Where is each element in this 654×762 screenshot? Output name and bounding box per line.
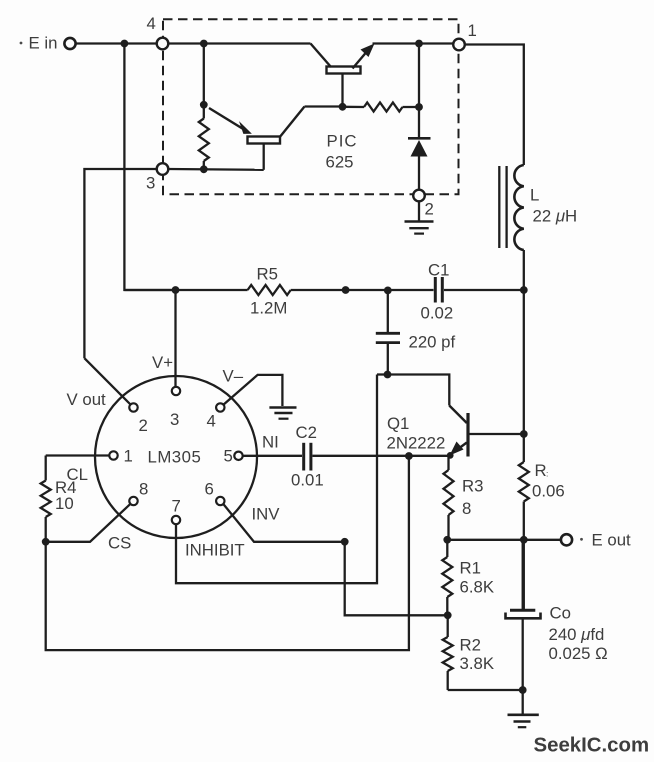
svg-text:SeekIC.com: SeekIC.com xyxy=(534,735,650,757)
pin 2 xyxy=(129,403,137,411)
junction rail/E out xyxy=(520,536,528,544)
junction Q-a base xyxy=(339,103,347,111)
node 4 (module pin) xyxy=(157,38,169,50)
wire Q-a base vertical xyxy=(341,74,343,107)
junction 220pf/inhibit/Q1 xyxy=(384,371,392,379)
junction V+ riser xyxy=(172,286,180,294)
svg-text:V+: V+ xyxy=(152,353,173,372)
svg-text:6: 6 xyxy=(205,480,214,499)
svg-text:LM305: LM305 xyxy=(148,448,202,467)
svg-text:4: 4 xyxy=(207,412,216,431)
junction rail/C1 xyxy=(520,286,528,294)
svg-text:0.06: 0.06 xyxy=(532,482,565,501)
svg-text:2: 2 xyxy=(139,416,148,435)
wire Q1 base to rail xyxy=(470,433,524,435)
capacitor C2 xyxy=(302,443,305,471)
resistor (PIC bias, left vertical) xyxy=(199,119,209,162)
svg-text:C1: C1 xyxy=(428,261,449,280)
resistor R5 xyxy=(248,285,291,295)
junction NI wire / left loop xyxy=(405,452,413,460)
svg-text:2N2222: 2N2222 xyxy=(387,434,446,453)
wire pin7 INHIBIT path xyxy=(176,375,377,584)
junction Q1 emitter/R3 xyxy=(447,452,454,459)
PIC 625 module dashed boundary xyxy=(163,19,459,194)
junction rail/Q1 base xyxy=(520,430,528,438)
svg-text:1: 1 xyxy=(124,447,133,466)
wire inductor to lower rail xyxy=(523,250,525,462)
wire Q-b emitter down xyxy=(263,144,265,170)
svg-text:220 pf: 220 pf xyxy=(409,333,456,352)
svg-text:0.02: 0.02 xyxy=(421,304,454,323)
wire node 2 to ground xyxy=(418,201,420,221)
junction top rail / diode branch xyxy=(415,40,423,48)
svg-text:Q1: Q1 xyxy=(387,414,409,433)
pin 1 xyxy=(109,451,117,459)
svg-text:R2: R2 xyxy=(460,636,481,655)
svg-text:0.025 Ω: 0.025 Ω xyxy=(549,644,608,663)
svg-text:NI: NI xyxy=(262,433,279,452)
label E out xyxy=(580,538,583,541)
wire Q-a collector diagonal from top rail xyxy=(311,44,332,68)
svg-text:3: 3 xyxy=(170,410,179,429)
transistor Q-a (PIC upper) body bar xyxy=(327,67,361,74)
wire pin8 CS diagonal xyxy=(46,504,131,542)
svg-text:E in: E in xyxy=(29,34,58,53)
wire INV feedback xyxy=(345,542,448,616)
svg-text:3.8K: 3.8K xyxy=(460,654,495,673)
svg-text:5: 5 xyxy=(224,447,233,466)
capacitor Co xyxy=(522,540,524,609)
wire 220pf bottom xyxy=(387,344,389,375)
junction INV wire end xyxy=(341,538,349,546)
resistor Ri 0.06 xyxy=(519,462,529,502)
junction top-left inside module xyxy=(200,40,208,48)
pin 6 xyxy=(216,497,224,505)
resistor R3 xyxy=(447,456,449,470)
Q1 emitter with arrow xyxy=(456,443,467,451)
svg-text:R5: R5 xyxy=(257,265,278,284)
wire pin5 NI xyxy=(243,455,302,457)
resistor R2 xyxy=(447,615,449,637)
wire bottom-left loop xyxy=(46,456,409,650)
wire C1 right to rail xyxy=(444,289,524,291)
pin 5 xyxy=(234,452,242,460)
pin 4 xyxy=(216,403,224,411)
wire R2 bottom to Co xyxy=(448,689,523,691)
svg-text:3: 3 xyxy=(146,174,155,193)
wire pin2 V out diagonal xyxy=(84,358,130,404)
svg-text:V out: V out xyxy=(67,390,107,409)
svg-text:R: R xyxy=(535,461,547,480)
resistor R4 xyxy=(45,456,47,481)
inductor core lines xyxy=(498,166,500,248)
svg-text:L: L xyxy=(530,186,539,205)
terminal E out xyxy=(561,534,572,545)
svg-text::: : xyxy=(546,469,548,479)
svg-text:Co: Co xyxy=(550,604,571,623)
svg-text:4: 4 xyxy=(147,14,156,33)
wire pin4 V- to ground xyxy=(224,375,283,406)
svg-text:2: 2 xyxy=(425,200,434,219)
ground (module pin 2) xyxy=(405,220,434,223)
svg-text:PIC: PIC xyxy=(327,132,358,151)
svg-text:INV: INV xyxy=(252,505,281,524)
wire to Q-a base node xyxy=(305,105,343,107)
junction at drive node xyxy=(200,101,208,109)
diode D (PIC internal) xyxy=(408,137,431,140)
wire pin1 CL xyxy=(46,454,110,456)
wire C2 to Q1 emitter xyxy=(313,455,452,457)
wire to Q1 collector xyxy=(388,375,450,406)
svg-text:INHIBIT: INHIBIT xyxy=(185,541,245,560)
node 3 (module pin) xyxy=(157,163,169,175)
node 2 (module pin) xyxy=(413,190,425,202)
svg-text:625: 625 xyxy=(326,153,354,172)
svg-text:6.8K: 6.8K xyxy=(460,578,495,597)
wire: left rail down to R5 wire xyxy=(124,44,171,291)
junction R1/R2 xyxy=(444,611,452,619)
junction R4/CS xyxy=(42,538,50,546)
Q1 base bar xyxy=(466,413,469,457)
svg-text:0.01: 0.01 xyxy=(291,471,324,490)
svg-text:R1: R1 xyxy=(460,559,481,578)
capacitor 220pf xyxy=(376,332,400,335)
svg-text:CS: CS xyxy=(108,534,131,553)
junction Co/R2 xyxy=(519,686,527,694)
svg-text:240 μfd: 240 μfd xyxy=(549,625,605,644)
ground (output) xyxy=(508,713,539,716)
junction 220pf xyxy=(384,287,392,295)
wire node4 into module xyxy=(169,42,311,44)
pin 3 xyxy=(172,387,180,395)
svg-text:1.2M: 1.2M xyxy=(250,299,287,318)
wire E out row xyxy=(447,539,561,541)
wire Q-a emitter arrow to top rail xyxy=(353,49,370,69)
junction R3/R1 xyxy=(443,536,451,544)
svg-text:10: 10 xyxy=(55,494,74,513)
wire to ground xyxy=(522,690,524,714)
transistor Q-b base drive arrow xyxy=(209,108,244,130)
wire top rail right of Q-a to node 1 xyxy=(373,42,454,44)
junction 345 xyxy=(342,286,350,294)
wire resistor to diode rail xyxy=(403,106,420,108)
svg-text:22 μH: 22 μH xyxy=(533,207,578,226)
wire E in to node 4 xyxy=(76,42,157,44)
wire base node to resistor xyxy=(343,106,365,108)
label E in xyxy=(20,42,23,45)
wire R5 to C1 xyxy=(291,289,434,291)
inductor L coil xyxy=(514,165,523,250)
wire diode rail xyxy=(418,44,420,138)
svg-text:E out: E out xyxy=(592,531,632,550)
wire pin6 INV diagonal xyxy=(223,504,344,542)
pin 7 xyxy=(172,516,180,524)
ground (V-) xyxy=(269,406,296,409)
svg-text:V–: V– xyxy=(223,367,244,386)
svg-text:7: 7 xyxy=(172,497,181,516)
wire resistor to bottom xyxy=(203,161,205,169)
Q1 collector xyxy=(449,406,467,424)
junction diode rail xyxy=(415,103,423,111)
transistor Q-b (PIC lower) body bar xyxy=(248,137,281,144)
svg-text:R3: R3 xyxy=(462,477,483,496)
junction: E in rail / R5 rail xyxy=(121,40,129,48)
svg-text:8: 8 xyxy=(139,480,148,499)
svg-text:1: 1 xyxy=(468,21,477,40)
wire node 1 to inductor xyxy=(465,45,524,166)
junction node3 wire xyxy=(200,165,208,173)
svg-text:8: 8 xyxy=(462,499,471,518)
wire inhibit riser top link xyxy=(377,373,388,375)
wire: inner left drop xyxy=(203,44,205,119)
wire Q-b collector diagonal xyxy=(280,107,305,138)
wire R5 left xyxy=(124,289,247,291)
resistor R1 xyxy=(446,540,448,557)
wire node 3 inner xyxy=(169,168,264,171)
pin 8 xyxy=(129,497,137,505)
op-amp/regulator U1 LM305 body xyxy=(95,376,257,538)
capacitor C1 xyxy=(434,277,437,303)
wire 220pf top xyxy=(387,290,389,332)
wire node 3 to V out riser xyxy=(84,169,156,358)
svg-text:C2: C2 xyxy=(296,423,317,442)
terminal E in xyxy=(64,38,75,49)
node 1 (module pin) xyxy=(453,39,465,51)
wire pin3 V+ riser xyxy=(174,290,176,387)
